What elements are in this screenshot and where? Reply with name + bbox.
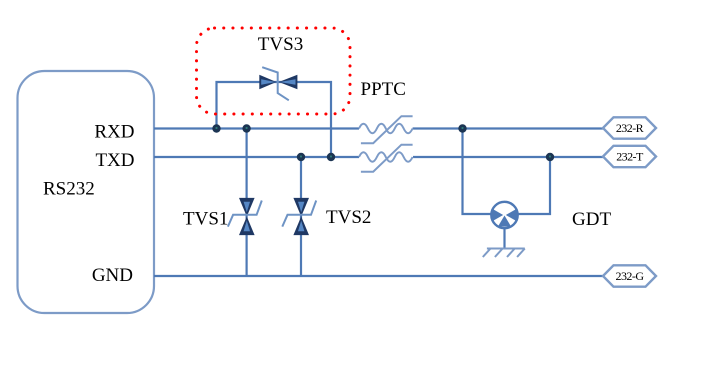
- svg-text:PPTC: PPTC: [361, 79, 406, 100]
- svg-text:232-R: 232-R: [616, 121, 644, 135]
- svg-text:TVS3: TVS3: [258, 34, 303, 55]
- svg-text:232-T: 232-T: [616, 149, 644, 163]
- svg-text:232-G: 232-G: [616, 269, 645, 283]
- svg-text:TVS2: TVS2: [326, 207, 371, 228]
- svg-text:TXD: TXD: [95, 150, 134, 171]
- svg-text:RXD: RXD: [94, 122, 134, 143]
- svg-text:GND: GND: [92, 265, 133, 286]
- svg-text:TVS1: TVS1: [183, 208, 228, 229]
- svg-text:GDT: GDT: [572, 209, 611, 230]
- svg-text:RS232: RS232: [43, 179, 95, 200]
